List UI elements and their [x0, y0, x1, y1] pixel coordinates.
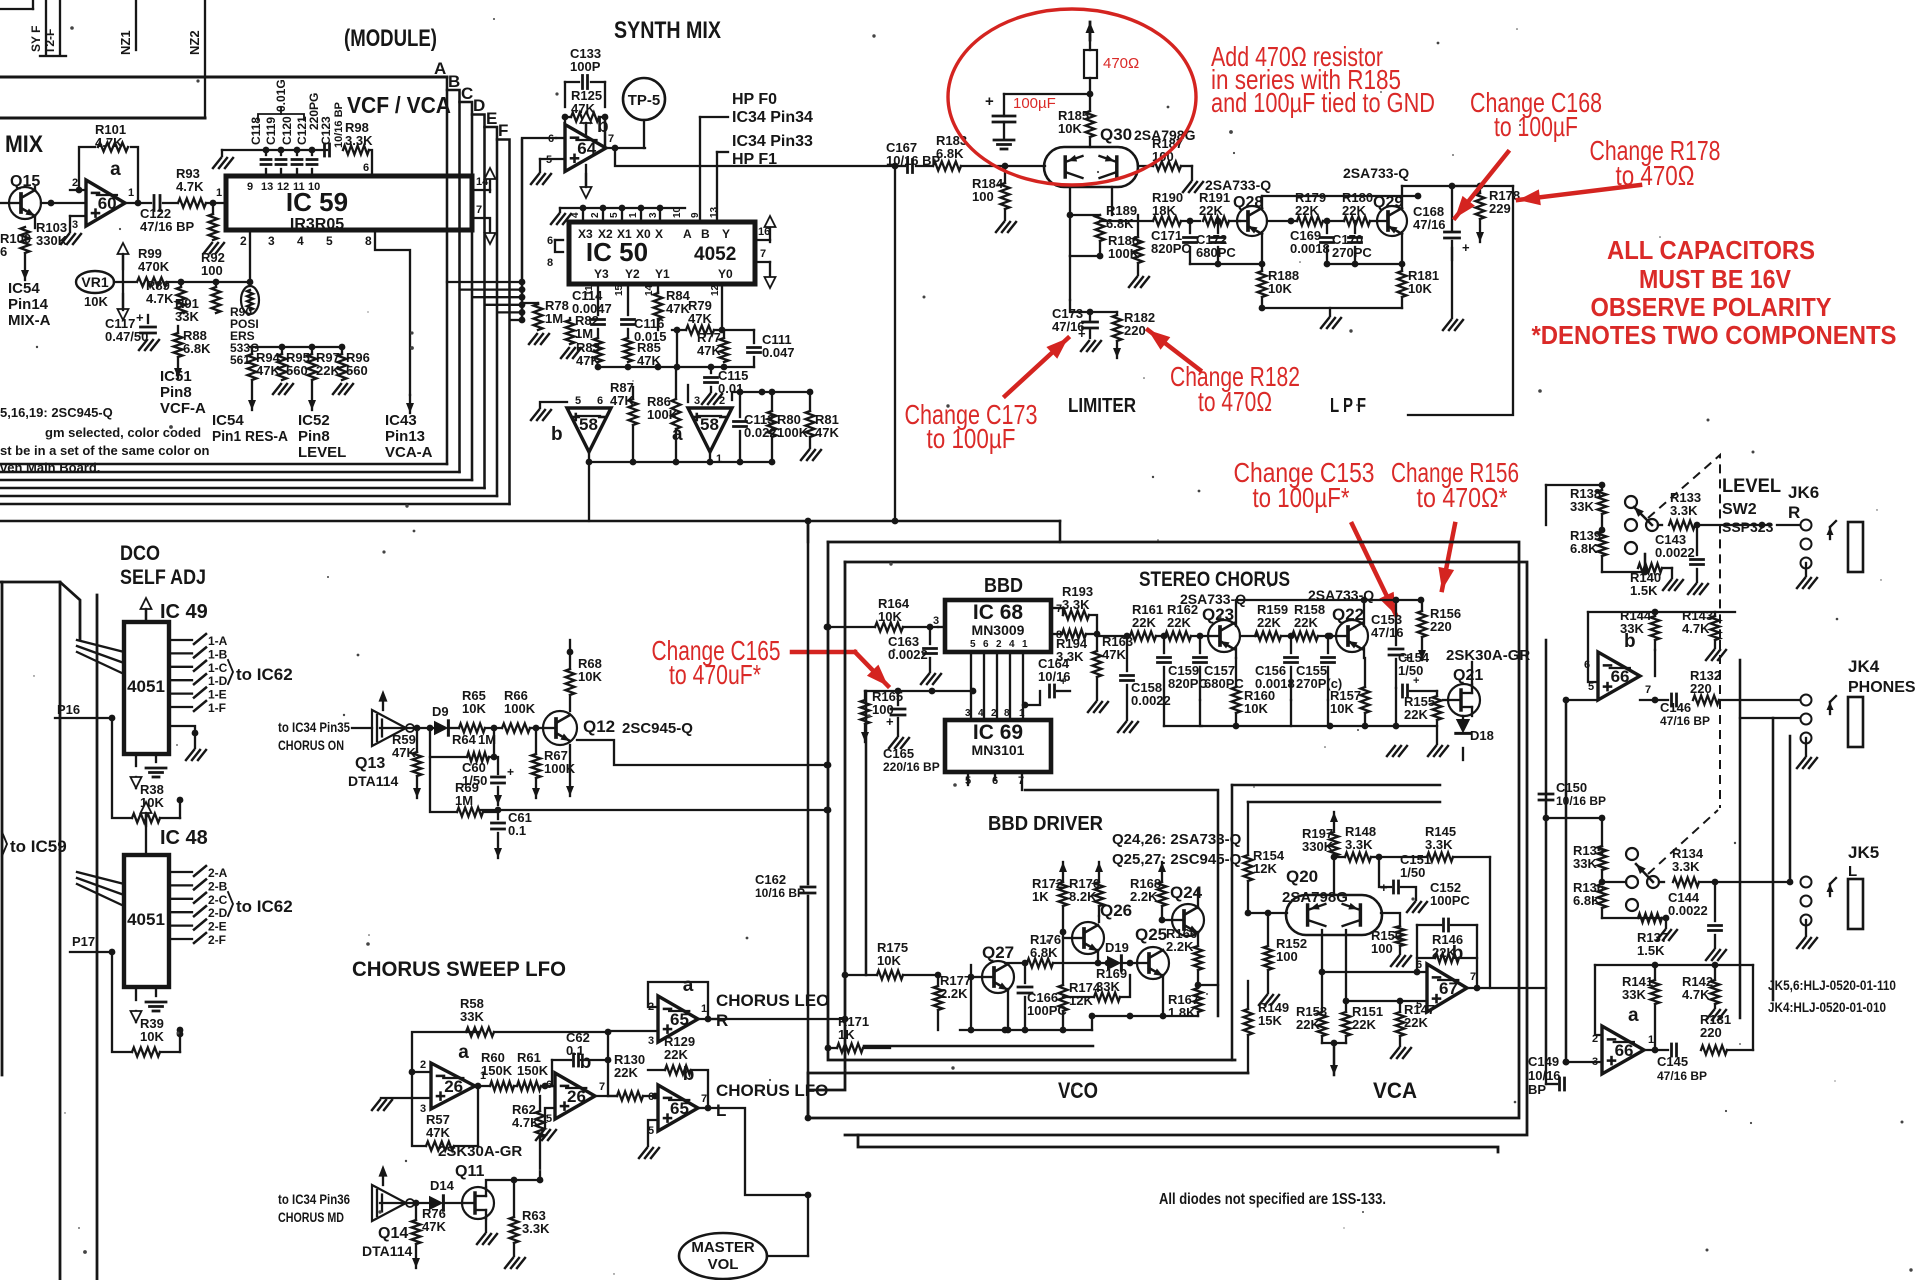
wire Q28-R179 [1267, 220, 1297, 222]
switch outputs IC48 [169, 871, 192, 873]
svg-text:D9: D9 [432, 704, 449, 719]
wire lpf bottom rail [1262, 307, 1402, 309]
wire vca sum arrow [1322, 1042, 1346, 1044]
svg-text:Q26: Q26 [1100, 901, 1132, 920]
wire Q11 source [485, 1218, 487, 1232]
svg-text:22K: 22K [1132, 615, 1156, 630]
svg-text:MIX: MIX [5, 131, 43, 158]
wire c152 box [1416, 925, 1418, 972]
wire vco inner bottom [864, 1045, 1093, 1048]
resistor 470ohm new [1084, 50, 1097, 78]
ground R184 [996, 222, 1004, 232]
transistor Q20 dual [1286, 895, 1382, 935]
svg-text:VOL: VOL [708, 1256, 739, 1273]
svg-text:MN3009: MN3009 [972, 622, 1025, 638]
svg-text:47/16: 47/16 [1413, 217, 1446, 232]
wire module bottom D [0, 487, 485, 490]
wire sc top rail [1235, 600, 1237, 626]
svg-text:3: 3 [268, 234, 275, 248]
transistor Q24 [1172, 904, 1204, 936]
svg-text:*DENOTES TWO COMPONENTS: *DENOTES TWO COMPONENTS [1532, 320, 1897, 350]
diode D9 [434, 721, 448, 735]
svg-text:10K: 10K [462, 701, 486, 716]
wire Q11 drain [486, 1180, 540, 1188]
svg-text:10K: 10K [578, 669, 602, 684]
wire Y0 down [721, 284, 723, 330]
svg-text:560: 560 [346, 363, 368, 378]
svg-text:LEVEL: LEVEL [1722, 476, 1781, 497]
wire chorus on [352, 727, 372, 729]
svg-text:Y1: Y1 [655, 267, 670, 281]
red arrow C173 [1005, 338, 1068, 396]
ground JK4 [1805, 738, 1807, 756]
svg-text:C119: C119 [264, 117, 278, 145]
wire R194 res [1062, 630, 1086, 639]
wire q25 rail [1092, 1015, 1198, 1017]
wire module bottom A [0, 463, 447, 466]
svg-text:SYNTH MIX: SYNTH MIX [614, 17, 721, 44]
wire IC49 arrow [145, 609, 147, 622]
ground C143 [1688, 584, 1696, 594]
svg-text:2.2K: 2.2K [1166, 939, 1194, 954]
svg-text:X2: X2 [598, 227, 613, 241]
wire op58b pin6 up [597, 367, 599, 402]
svg-text:2: 2 [996, 639, 1002, 650]
svg-text:b: b [597, 116, 609, 137]
svg-text:+: + [1078, 326, 1086, 341]
wire pot row [167, 281, 250, 283]
wire 66b in5 [1566, 699, 1598, 701]
wire 26b out [595, 1095, 617, 1097]
wire bus to op64 [522, 137, 556, 139]
capacitor C119 [276, 158, 286, 161]
wire Q28 collector [1261, 232, 1263, 264]
svg-text:47/16: 47/16 [1371, 625, 1404, 640]
svg-text:C120: C120 [280, 116, 294, 145]
svg-text:1/50: 1/50 [1400, 865, 1425, 880]
wire C122-R93 [163, 202, 177, 204]
svg-text:C165: C165 [883, 746, 914, 761]
wire top-left box corner [0, 8, 33, 10]
svg-text:4.7K: 4.7K [1682, 621, 1710, 636]
wire R97 arrow [311, 380, 313, 410]
svg-text:to 100µF: to 100µF [927, 423, 1016, 454]
wire IC43 line [375, 230, 410, 395]
wire bus stub F [510, 319, 522, 321]
svg-text:2-B: 2-B [208, 879, 228, 893]
svg-text:33K: 33K [1570, 499, 1594, 514]
svg-text:X: X [655, 227, 663, 241]
wire 26a pin2 [420, 1071, 431, 1073]
wire R88 arrow [177, 357, 179, 378]
svg-text:+: + [1462, 240, 1470, 255]
svg-text:LIMITER: LIMITER [1068, 395, 1136, 417]
svg-text:IC 69: IC 69 [973, 721, 1023, 744]
svg-text:TP-5: TP-5 [628, 92, 661, 109]
wire jack bus v1 [1739, 660, 1742, 1018]
wire bus C corner [460, 102, 473, 480]
svg-text:11: 11 [293, 181, 305, 193]
wire C167 left [895, 165, 905, 167]
svg-text:100PC: 100PC [1027, 1003, 1067, 1018]
svg-text:3: 3 [694, 395, 700, 407]
svg-text:L: L [716, 1101, 726, 1120]
wire bus stub D [485, 304, 522, 306]
wire IC50 top rail [560, 207, 685, 209]
op-amp U60a [86, 180, 125, 226]
ground R95 [273, 384, 281, 394]
capacitor C156 [1285, 656, 1298, 659]
wire r149 v [1247, 981, 1249, 1009]
wire IC43 arrow [409, 395, 411, 413]
svg-text:Pin8: Pin8 [298, 428, 330, 445]
svg-text:6.8K: 6.8K [936, 146, 964, 161]
ground C163 [921, 674, 929, 684]
wire 26b in [552, 1085, 555, 1087]
wire C164 link [1025, 691, 1040, 705]
wire vbus 846 [842, 972, 849, 979]
wire NZ2 line [204, 0, 206, 118]
op-amp U58a [688, 408, 732, 452]
wire R103 arrow [24, 254, 26, 280]
transistor Q25 [1137, 947, 1169, 979]
svg-text:4052: 4052 [694, 244, 736, 265]
svg-text:to 100µF: to 100µF [1494, 111, 1578, 142]
wire IC48 bottom [135, 987, 137, 1000]
svg-text:6: 6 [983, 639, 989, 650]
svg-text:C123: C123 [319, 116, 333, 145]
wire res row [250, 346, 342, 348]
wire IC59 pin7 [472, 217, 490, 219]
svg-text:5: 5 [970, 639, 976, 650]
svg-text:IC 50: IC 50 [586, 237, 648, 267]
svg-text:1: 1 [628, 212, 639, 218]
wire C173 branch [1070, 300, 1090, 312]
wire Y1-R84 join [676, 330, 678, 367]
jfet Q11 [462, 1187, 494, 1219]
wire r135 top [1546, 817, 1602, 819]
wire op67 in5 [1346, 1000, 1427, 1002]
svg-text:MASTER: MASTER [691, 1239, 755, 1256]
wire Q29 top [1401, 186, 1403, 209]
svg-text:HP F1: HP F1 [732, 151, 777, 168]
wire Y2 down [627, 284, 629, 315]
wire q20 em left [1321, 930, 1323, 1012]
svg-text:47K: 47K [426, 1125, 450, 1140]
capacitor C157 [1194, 656, 1207, 659]
svg-text:MUST BE 16V: MUST BE 16V [1639, 264, 1792, 294]
svg-text:5: 5 [546, 154, 552, 166]
svg-text:C: C [461, 84, 473, 103]
wire Q15 to opamp [41, 202, 86, 204]
svg-text:CHORUS MD: CHORUS MD [278, 1209, 344, 1225]
wire C153 down [1395, 688, 1397, 726]
svg-text:T2-F: T2-F [43, 29, 57, 54]
svg-text:100: 100 [1371, 941, 1393, 956]
wire r177 [934, 986, 943, 1010]
wire C61 rail [480, 809, 827, 811]
svg-text:1: 1 [216, 187, 222, 199]
svg-text:8: 8 [547, 257, 553, 269]
ground R96 [333, 384, 341, 394]
op-amp U58b [567, 408, 611, 452]
wire 66a out [1644, 1049, 1668, 1051]
svg-text:65: 65 [670, 1010, 689, 1029]
ground R78 [529, 334, 537, 344]
svg-text:47K: 47K [422, 1219, 446, 1234]
wire op58a pin2 loop [732, 392, 762, 400]
svg-text:+: + [1060, 676, 1066, 688]
wire 65b in6 [655, 1095, 658, 1097]
svg-text:3: 3 [648, 212, 659, 218]
wire IC50 pin6 [555, 239, 563, 241]
svg-text:BBD: BBD [984, 575, 1023, 597]
wire R59 [416, 776, 418, 798]
svg-text:1K: 1K [838, 1027, 855, 1042]
switch SW2 R contacts [1625, 496, 1637, 508]
wire bus line y77 [0, 75, 447, 78]
wire Q12 emitter [569, 745, 571, 796]
wire r169 right [1129, 963, 1131, 975]
svg-text:L: L [1848, 863, 1857, 880]
wire r140 [1638, 564, 1662, 573]
svg-text:Q24,26: 2SA733-Q: Q24,26: 2SA733-Q [1112, 831, 1242, 848]
wire sc rail y726 [1163, 700, 1165, 726]
svg-text:4.7K: 4.7K [146, 291, 174, 306]
svg-text:X1: X1 [617, 227, 632, 241]
svg-text:to IC34 Pin35: to IC34 Pin35 [278, 719, 350, 735]
svg-text:3.3K: 3.3K [1345, 837, 1373, 852]
ground R82 [561, 348, 569, 358]
svg-text:2SK30A-GR: 2SK30A-GR [438, 1143, 522, 1160]
wire vbus 827 [825, 624, 832, 631]
svg-text:to 470Ω*: to 470Ω* [1417, 482, 1508, 513]
wire bbd rail y691 [865, 690, 973, 692]
wire Q28 top [1261, 196, 1263, 209]
wire r143 gnd [1706, 650, 1714, 660]
pot R99 arrows [122, 254, 124, 269]
wire chorus lfo line [708, 1108, 808, 1195]
wire bus stub C [472, 296, 522, 298]
svg-text:10/16: 10/16 [1528, 1068, 1561, 1083]
ground lpf [1321, 318, 1329, 328]
svg-text:3: 3 [933, 615, 939, 627]
svg-text:4051: 4051 [127, 677, 165, 696]
svg-text:7: 7 [476, 204, 482, 216]
wire C113 stubs [739, 392, 741, 417]
svg-text:4.7K: 4.7K [176, 179, 204, 194]
svg-text:CHORUS ON: CHORUS ON [278, 737, 344, 753]
svg-text:Q27: Q27 [982, 943, 1014, 962]
diode D19 [1107, 956, 1121, 970]
svg-text:1.5K: 1.5K [1637, 943, 1665, 958]
transistor Q30 dual [1044, 147, 1138, 187]
svg-text:10K: 10K [1408, 281, 1432, 296]
wire R94 arrow [251, 380, 253, 410]
wire bus D corner [472, 115, 485, 489]
wire C133 loop [565, 81, 579, 83]
svg-text:1M: 1M [455, 793, 473, 808]
wire 26a pin3 [412, 1097, 431, 1099]
svg-text:C150: C150 [1556, 780, 1587, 795]
ground R155 [1428, 746, 1436, 756]
op-amp U66b [1598, 652, 1640, 700]
wire R68 top [569, 640, 571, 652]
wire junction row y367 [598, 366, 754, 368]
svg-text:Q23: Q23 [1202, 605, 1234, 624]
svg-text:IC52: IC52 [298, 412, 330, 429]
svg-text:3: 3 [648, 1035, 654, 1047]
wire R87 stub [632, 387, 634, 399]
dashed SW2 L [1648, 810, 1718, 874]
ground R142 [1706, 1010, 1714, 1020]
svg-text:SW2: SW2 [1722, 501, 1757, 518]
ground C144 [1706, 950, 1714, 960]
svg-text:+: + [507, 765, 514, 779]
svg-text:5: 5 [326, 234, 333, 248]
svg-text:6: 6 [1416, 959, 1422, 971]
wire Q29 collector [1401, 232, 1403, 264]
wire chorus box outer [808, 542, 1519, 1118]
wire q23 fb [1235, 647, 1237, 658]
svg-text:R: R [716, 1011, 728, 1030]
svg-text:10K: 10K [877, 953, 901, 968]
svg-text:9: 9 [690, 212, 701, 218]
svg-text:9: 9 [247, 181, 253, 193]
svg-text:1: 1 [716, 453, 722, 465]
ground R186 [1129, 277, 1137, 287]
wire chorus bottom c [808, 1072, 1248, 1075]
svg-text:22K: 22K [1404, 707, 1428, 722]
svg-text:47K: 47K [666, 301, 690, 316]
transistor Q22 [1336, 620, 1368, 652]
svg-text:64: 64 [577, 139, 596, 158]
wire r138 top [1546, 484, 1602, 486]
svg-text:IC 68: IC 68 [973, 601, 1024, 624]
wire chorus md [352, 1202, 368, 1204]
wire IC48 arrow [145, 813, 147, 826]
jack JK4 [1801, 695, 1812, 706]
svg-text:IC43: IC43 [385, 412, 417, 429]
svg-text:3: 3 [72, 219, 78, 231]
wire 58 out rail [588, 452, 590, 521]
wire bbd driver box top [1025, 790, 1218, 1016]
wire q27 coll [1007, 940, 1009, 966]
svg-text:3.3K: 3.3K [345, 133, 373, 148]
svg-text:Q25: Q25 [1135, 925, 1167, 944]
wire q27 em down [1007, 989, 1009, 1030]
ground JK5 [1805, 920, 1807, 936]
wire op64 in6 [556, 137, 565, 139]
svg-text:LEVEL: LEVEL [298, 444, 346, 461]
wire 65a in [608, 1031, 658, 1032]
op-amp U65a [658, 996, 698, 1042]
svg-text:E: E [486, 109, 497, 128]
svg-text:22K: 22K [664, 1047, 688, 1062]
svg-text:C118: C118 [249, 117, 263, 145]
svg-text:220/16 BP: 220/16 BP [883, 760, 940, 774]
svg-text:220: 220 [1124, 323, 1146, 338]
svg-text:13: 13 [709, 206, 720, 218]
svg-text:b: b [683, 1064, 695, 1085]
svg-text:150K: 150K [481, 1063, 513, 1078]
wire op64 in5 [540, 158, 565, 160]
wire 66b fb right [1654, 650, 1656, 676]
wire bus stub B [460, 288, 522, 290]
svg-text:6: 6 [0, 244, 7, 259]
wire bus stub A [447, 281, 522, 283]
svg-text:1-D: 1-D [208, 674, 228, 688]
svg-text:26: 26 [567, 1087, 586, 1106]
wire r139 bottom [1602, 571, 1645, 573]
ground opamp60 pin3 [61, 234, 69, 244]
svg-text:2SC945-Q: 2SC945-Q [622, 720, 693, 737]
wire fb66b box [1588, 611, 1735, 613]
svg-text:1-E: 1-E [208, 688, 227, 702]
wire Q30 base [1005, 165, 1045, 167]
wire q28 bottom rail [1190, 263, 1262, 265]
wire opamp60 out [125, 202, 151, 204]
wire IC49 bottom [135, 754, 137, 766]
pot VR1 [76, 271, 114, 293]
wire sc rail2 [1202, 725, 1437, 727]
svg-text:Y: Y [722, 227, 730, 241]
svg-text:0.1: 0.1 [508, 823, 526, 838]
svg-text:33K: 33K [175, 309, 199, 324]
transistor Q23 [1208, 620, 1240, 652]
svg-text:3.3K: 3.3K [1062, 597, 1090, 612]
wire op64 gnd [539, 159, 541, 172]
svg-text:VR1: VR1 [81, 274, 108, 290]
svg-text:2-E: 2-E [208, 920, 227, 934]
svg-text:3.3K: 3.3K [1425, 837, 1453, 852]
svg-text:7: 7 [701, 1093, 707, 1105]
svg-text:10K: 10K [1268, 281, 1292, 296]
svg-text:6.8K: 6.8K [183, 341, 211, 356]
wire r166 out [1198, 984, 1218, 986]
wire bus B corner [447, 90, 460, 472]
resistor R92 [209, 214, 218, 240]
svg-text:R64: R64 [452, 732, 477, 747]
svg-text:SY F: SY F [29, 26, 43, 52]
wire op64 down wire [615, 148, 895, 166]
svg-text:10/16 BP: 10/16 BP [333, 102, 345, 148]
svg-text:JK4: JK4 [1848, 657, 1880, 676]
wire fb66a box [1595, 964, 1753, 966]
svg-text:2.2K: 2.2K [1130, 889, 1158, 904]
svg-text:0.0022: 0.0022 [1655, 545, 1695, 560]
svg-text:67: 67 [1439, 979, 1458, 998]
ground C117 [139, 340, 147, 350]
red arrow R182 [1148, 330, 1200, 370]
svg-text:C149: C149 [1528, 1054, 1559, 1069]
ground R81 [801, 450, 809, 460]
svg-text:3.3K: 3.3K [522, 1221, 550, 1236]
switch SW2 L arm [1647, 876, 1659, 888]
svg-text:47K: 47K [815, 425, 839, 440]
capacitor C122 [153, 196, 156, 211]
svg-text:A: A [683, 227, 692, 241]
svg-text:B: B [448, 72, 460, 91]
svg-text:5: 5 [546, 1113, 552, 1125]
wire HPF0 line [700, 116, 728, 118]
svg-text:X0: X0 [636, 227, 651, 241]
wire chorus feed bus [0, 520, 808, 523]
svg-text:D14: D14 [430, 1178, 455, 1193]
svg-text:0.0022: 0.0022 [1668, 903, 1708, 918]
svg-text:P17: P17 [72, 934, 95, 949]
wire q26 up [1098, 916, 1100, 922]
